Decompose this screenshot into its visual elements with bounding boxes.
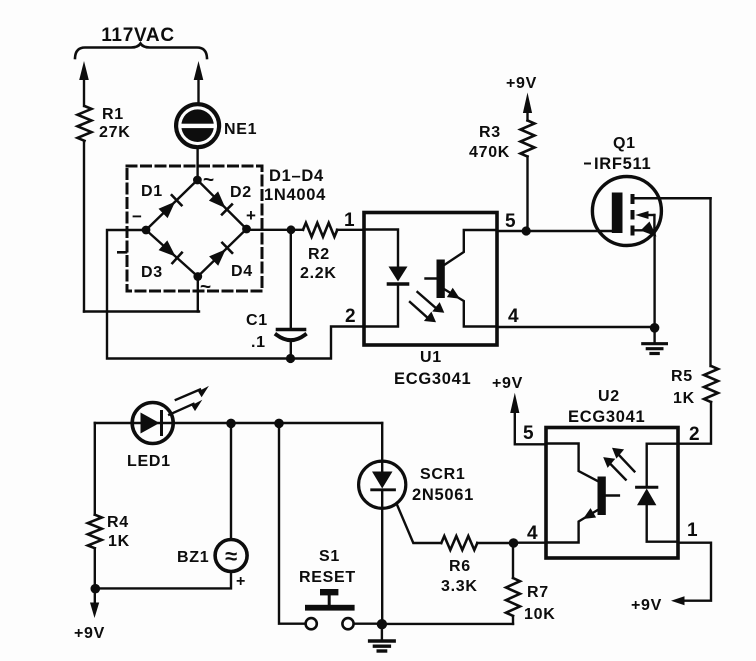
wire bottom to R7 <box>382 623 513 625</box>
svg-text:4: 4 <box>508 306 519 327</box>
wire S1 to ground junction <box>354 623 382 625</box>
U2 base stub <box>604 494 619 496</box>
svg-text:2.2K: 2.2K <box>300 265 337 282</box>
U1 collector wire to pin 5 <box>445 230 497 265</box>
ground (Q1 source) <box>653 328 655 343</box>
ground (S1/SCR1) <box>381 624 383 640</box>
wire U2 pin4 to R6 junction <box>514 542 547 544</box>
svg-text:NE1: NE1 <box>224 121 257 138</box>
wire U1 pin4 to ground node <box>497 326 655 328</box>
wire Q1 source down to ground node <box>653 230 655 328</box>
U1 phototransistor base bar <box>437 260 445 299</box>
resistor R5 <box>704 366 718 402</box>
neon lamp NE1 <box>176 104 219 147</box>
svg-text:U2: U2 <box>598 388 620 405</box>
U2 light arrows <box>618 454 634 471</box>
wire R6 to junction <box>477 542 513 544</box>
SCR1 diode <box>372 472 393 489</box>
junction node R6/R7/pin4 <box>509 538 519 548</box>
Q1 drain lead <box>635 197 711 200</box>
svg-text:+9V: +9V <box>631 597 662 614</box>
U1 internal LED <box>389 267 408 282</box>
svg-text:D3: D3 <box>141 264 163 281</box>
svg-text:2: 2 <box>345 306 356 327</box>
U1 internal LED wire <box>364 230 398 268</box>
svg-text:+: + <box>236 573 246 590</box>
wire U2 pin5 to +9V arrow <box>515 412 546 444</box>
svg-text:~: ~ <box>203 170 215 191</box>
junction node S1 top <box>274 419 284 429</box>
wire AC terminal right (arrow up) <box>197 79 199 104</box>
diode D3 <box>159 240 176 256</box>
svg-text:1K: 1K <box>108 533 130 550</box>
junction node BZ1 top <box>226 419 236 429</box>
svg-text:D1: D1 <box>141 183 163 200</box>
svg-text:RESET: RESET <box>299 569 356 586</box>
wire right node to R2 <box>247 229 304 231</box>
svg-text:≈: ≈ <box>225 544 238 569</box>
wire bottom AC joining R1 to bridge bottom <box>84 310 199 312</box>
junction node C1 top <box>287 225 296 234</box>
svg-text:+9V: +9V <box>506 75 537 92</box>
bridge dashed box D1-D4 <box>127 166 262 291</box>
svg-text:D4: D4 <box>231 263 253 280</box>
switch S1 <box>306 618 317 629</box>
svg-text:470K: 470K <box>469 144 510 161</box>
U2 internal LED <box>637 486 657 489</box>
U2 emitter wire to pin 4 <box>546 510 599 543</box>
svg-text:5: 5 <box>505 211 516 232</box>
resistor R1 <box>78 106 92 141</box>
junction node R4/BZ1 <box>91 584 101 594</box>
svg-text:3.3K: 3.3K <box>441 578 478 595</box>
resistor R3 <box>521 121 535 157</box>
svg-text:−: − <box>132 207 143 226</box>
wire R1 down <box>83 141 85 312</box>
svg-text:1: 1 <box>344 210 355 231</box>
capacitor C1 <box>290 230 292 329</box>
svg-text:27K: 27K <box>99 124 130 141</box>
optocoupler U1 box <box>364 213 497 346</box>
U1 base stub <box>426 277 440 279</box>
svg-text:~: ~ <box>200 277 212 298</box>
U2 internal LED wire from pin2 <box>647 444 678 487</box>
svg-text:+9V: +9V <box>74 625 105 642</box>
svg-text:.1: .1 <box>251 334 266 351</box>
svg-text:R6: R6 <box>449 558 471 575</box>
svg-text:ECG3041: ECG3041 <box>568 408 645 426</box>
wire U2 pin1 to +9V arrow <box>678 543 711 601</box>
wire U1 pin5 to Q1 gate <box>497 230 612 232</box>
svg-text:S1: S1 <box>319 548 340 565</box>
wire R3 to pin5 junction <box>526 157 528 232</box>
Q1 gate bar <box>612 193 623 234</box>
svg-text:5: 5 <box>523 423 534 444</box>
resistor R7 <box>512 543 514 578</box>
svg-text:117VAC: 117VAC <box>101 25 175 46</box>
svg-text:+9V: +9V <box>492 375 523 392</box>
junction node Q1 source/U1 pin4 <box>650 323 660 333</box>
wire R6 to SCR1 gate <box>397 504 442 544</box>
svg-text:R5: R5 <box>671 368 693 385</box>
svg-text:R2: R2 <box>308 246 330 263</box>
junction node C1 bottom <box>286 354 295 363</box>
SCR1 anode wire <box>381 423 383 471</box>
wire bridge bottom stub <box>197 277 199 312</box>
svg-text:R3: R3 <box>479 124 501 141</box>
svg-text:C1: C1 <box>246 312 268 329</box>
svg-text:R1: R1 <box>102 106 124 123</box>
svg-text:D2: D2 <box>230 184 252 201</box>
svg-text:LED1: LED1 <box>127 453 171 470</box>
brace 117VAC <box>75 44 207 59</box>
svg-text:SCR1: SCR1 <box>420 466 465 483</box>
diode D4 <box>209 249 226 266</box>
svg-text:2: 2 <box>689 424 700 445</box>
svg-text:10K: 10K <box>524 606 555 623</box>
LED LED1 <box>132 403 173 444</box>
Q1 source lead <box>635 229 655 231</box>
Q1 channel segments <box>631 194 635 204</box>
wire BZ1 bottom to R4 junction <box>95 572 231 589</box>
svg-text:1: 1 <box>687 520 698 541</box>
Q1 substrate arrow <box>647 214 654 216</box>
optocoupler U2 box <box>546 428 678 559</box>
resistor R6 <box>441 536 477 550</box>
LED1 light arrows <box>176 390 200 400</box>
wire +9V arrow down <box>94 589 96 603</box>
U1 emitter wire to pin 4 <box>445 290 497 327</box>
wire R5 to U2 pin2 <box>678 402 711 444</box>
wire AC terminal left (arrow up) <box>83 79 85 106</box>
wire left node to bottom rail and U1 pin2 <box>107 230 364 359</box>
svg-text:1N4004: 1N4004 <box>264 186 326 204</box>
transistor Q1 circle <box>592 177 661 246</box>
svg-text:IRF511: IRF511 <box>594 155 651 173</box>
bridge diamond wires <box>146 180 247 277</box>
wire R2 to U1 pin1 <box>337 229 364 231</box>
buzzer BZ1 <box>230 423 232 539</box>
svg-text:4: 4 <box>527 523 538 544</box>
diode D2 <box>209 191 226 208</box>
resistor R2 <box>303 223 337 237</box>
svg-text:1K: 1K <box>673 390 695 407</box>
wire Q1 drain down right side <box>709 198 711 366</box>
svg-text:BZ1: BZ1 <box>177 549 209 566</box>
svg-text:D1–D4: D1–D4 <box>269 167 324 185</box>
wire LED1 row <box>95 422 382 424</box>
resistor R4 <box>94 423 96 515</box>
svg-text:U1: U1 <box>420 349 442 366</box>
tick mark left of bridge box <box>118 251 126 254</box>
junction node pin5/R3 <box>522 226 531 235</box>
wire +9V arrow above R3 <box>523 93 532 114</box>
U1 light arrows <box>418 292 438 309</box>
svg-text:Q1: Q1 <box>613 135 636 152</box>
SCR1 cathode wire down <box>381 490 383 624</box>
junction node SCR1 cathode/ground <box>377 619 387 629</box>
wire S1 column <box>279 423 305 623</box>
svg-text:R7: R7 <box>527 584 549 601</box>
diode D1 <box>159 202 176 219</box>
svg-text:+: + <box>246 206 257 225</box>
svg-text:2N5061: 2N5061 <box>412 486 474 504</box>
SCR1 circle <box>359 461 406 508</box>
U2 phototransistor base bar <box>598 477 606 516</box>
svg-text:ECG3041: ECG3041 <box>394 370 471 388</box>
svg-text:R4: R4 <box>107 514 129 531</box>
node dots bridge <box>193 176 202 185</box>
U2 phototransistor collector wire from pin5 <box>546 444 599 482</box>
wire NE1 to bridge top <box>196 148 198 181</box>
